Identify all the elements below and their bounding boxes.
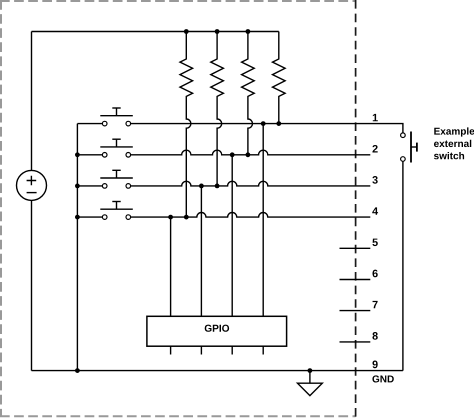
pin 7 stub bbox=[340, 310, 371, 312]
pin 1 label bbox=[373, 114, 378, 121]
pin 8 stub bbox=[340, 341, 371, 343]
GPIO pin stub 4 bbox=[262, 346, 264, 354]
pushbutton switch SW2 bbox=[100, 139, 133, 157]
junction bus row 2 bbox=[75, 152, 80, 157]
resistor R3 bbox=[242, 32, 255, 155]
wire row 4 to pin 4 bbox=[131, 213, 370, 218]
wire external switch to ground rail bbox=[402, 162, 404, 371]
resistor R4 bbox=[273, 32, 286, 124]
external switch caption bbox=[434, 127, 474, 136]
junction row 2 GPIO line 3 bbox=[230, 152, 235, 157]
junction ground symbol bbox=[308, 368, 313, 373]
junction row 3 R2 bbox=[215, 184, 220, 189]
GND label bbox=[372, 375, 393, 382]
junction row 4 GPIO line 1 bbox=[168, 215, 173, 220]
wire left from supply rail to voltage source bbox=[31, 32, 33, 171]
pin 6 label bbox=[372, 270, 377, 278]
voltage source minus sign bbox=[27, 192, 37, 194]
wire GPIO line 2 bbox=[200, 186, 202, 316]
ground symbol bbox=[298, 371, 323, 396]
dashed connector boundary line (black) bbox=[355, 0, 357, 417]
dashed enclosure border left (grey) bbox=[0, 0, 2, 417]
wire bottom ground rail (pin 9 net) bbox=[32, 370, 403, 372]
pushbutton switch SW3 bbox=[100, 170, 133, 188]
GPIO pin stub 3 bbox=[231, 346, 233, 354]
pin 5 label bbox=[372, 239, 377, 247]
wire bus to switch SW3 bbox=[77, 185, 102, 187]
junction bus row 4 bbox=[75, 215, 80, 220]
pin 9 label bbox=[372, 361, 377, 369]
pin 3 label bbox=[372, 176, 377, 184]
external switch SW5 bbox=[401, 132, 417, 163]
wire top supply rail bbox=[32, 31, 279, 33]
pin 8 label bbox=[372, 332, 377, 340]
wire GPIO line 1 bbox=[170, 217, 172, 316]
wire row 1 to pin 1 and external switch bbox=[131, 124, 403, 133]
voltage source plus sign bbox=[27, 176, 37, 186]
junction row 2 R3 bbox=[246, 152, 251, 157]
pin 6 stub bbox=[340, 279, 371, 281]
wire GPIO line 4 bbox=[262, 124, 264, 317]
dashed enclosure border bottom (grey) bbox=[0, 415, 356, 417]
wire bus to switch SW1 bbox=[77, 123, 102, 125]
junction row 4 R1 bbox=[184, 215, 189, 220]
pushbutton switch SW4 bbox=[100, 202, 133, 220]
junction row 1 R4 bbox=[276, 121, 281, 126]
voltage source V1 bbox=[17, 170, 47, 200]
pushbutton switch SW1 bbox=[100, 108, 133, 126]
junction top rail R3 bbox=[246, 29, 251, 34]
GPIO label bbox=[205, 325, 229, 332]
junction bus row 3 bbox=[75, 184, 80, 189]
resistor R2 bbox=[211, 32, 224, 186]
pin 7 label bbox=[373, 301, 378, 308]
wire bus to switch SW2 bbox=[77, 154, 102, 156]
resistor R1 bbox=[180, 32, 193, 218]
pin 5 stub bbox=[340, 247, 371, 249]
pin 4 label bbox=[372, 207, 378, 214]
junction row 3 GPIO line 2 bbox=[199, 184, 204, 189]
wire voltage source to ground rail bbox=[31, 200, 33, 370]
junction top rail R2 bbox=[215, 29, 220, 34]
junction bus ground rail bbox=[75, 368, 80, 373]
wire button supply bus bbox=[76, 124, 78, 371]
GPIO pin stub 1 bbox=[170, 346, 172, 354]
GPIO pin stub 2 bbox=[200, 346, 202, 354]
dashed enclosure border top (grey) bbox=[0, 0, 356, 2]
GPIO block U1 bbox=[147, 316, 287, 346]
junction row 1 GPIO line 4 bbox=[261, 121, 266, 126]
wire row 2 to pin 2 bbox=[131, 150, 370, 155]
wire bus to switch SW4 bbox=[77, 216, 102, 218]
wire row 3 to pin 3 bbox=[131, 181, 370, 186]
junction top rail R1 bbox=[184, 29, 189, 34]
wire GPIO line 3 bbox=[231, 155, 233, 316]
pin 2 label bbox=[372, 145, 377, 153]
